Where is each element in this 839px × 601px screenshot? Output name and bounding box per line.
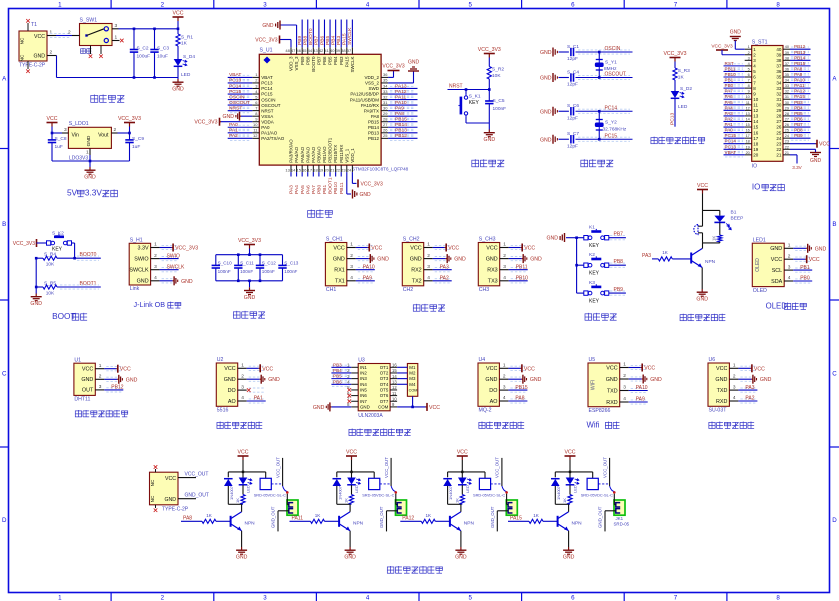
svg-text:TX1: TX1 <box>335 279 345 285</box>
svg-text:B: B <box>2 221 6 228</box>
svg-text:1: 1 <box>86 150 89 156</box>
svg-text:VCC_3V3: VCC_3V3 <box>175 246 198 252</box>
svg-text:29: 29 <box>785 106 789 110</box>
svg-text:GND: GND <box>360 192 372 198</box>
connector S_CH2 <box>402 243 423 286</box>
svg-text:3: 3 <box>115 23 118 29</box>
transistor NPN relay 4 <box>557 516 559 527</box>
svg-text:VCC: VCC <box>371 246 382 252</box>
svg-text:4: 4 <box>503 395 506 401</box>
svg-text:GND: GND <box>810 158 822 164</box>
svg-text:10uF: 10uF <box>157 54 168 60</box>
svg-text:NC: NC <box>150 479 155 486</box>
svg-text:35: 35 <box>776 75 782 80</box>
svg-text:6: 6 <box>748 73 750 77</box>
svg-text:PA1: PA1 <box>725 122 734 127</box>
power VCC_3V3 reset <box>488 54 490 58</box>
svg-text:MQ-2: MQ-2 <box>479 408 492 414</box>
relay coil SRD-05VDC-SL-C 4 <box>592 472 594 478</box>
svg-text:BEEP: BEEP <box>731 216 744 222</box>
ground GND relay 3 <box>460 547 462 550</box>
svg-text:1K: 1K <box>315 513 322 518</box>
svg-text:35: 35 <box>383 78 388 83</box>
power VCC_3V3 at U1 VDD_1 <box>351 172 353 183</box>
module U1 DHT11 <box>74 363 95 395</box>
svg-text:VCC: VCC <box>333 245 344 251</box>
svg-text:32: 32 <box>383 94 388 99</box>
svg-text:S_R4: S_R4 <box>44 252 56 258</box>
mcu U1 STM32F103C8T6 body <box>259 54 381 165</box>
svg-text:IN5: IN5 <box>360 388 367 393</box>
resistor 1K relay 1 <box>242 485 244 494</box>
svg-text:GND: GND <box>455 555 467 561</box>
svg-text:1: 1 <box>58 594 62 601</box>
svg-text:45: 45 <box>302 48 307 53</box>
svg-text:TYPE-C-2P: TYPE-C-2P <box>19 63 46 69</box>
svg-text:GND: GND <box>540 137 552 143</box>
svg-text:GND: GND <box>30 301 42 307</box>
svg-text:VDD_2: VDD_2 <box>364 75 379 80</box>
svg-text:20: 20 <box>324 167 329 172</box>
svg-text:PB3: PB3 <box>336 35 342 45</box>
svg-text:12: 12 <box>253 133 258 138</box>
svg-text:PB15: PB15 <box>368 119 380 124</box>
svg-text:PA8: PA8 <box>794 66 803 71</box>
svg-text:25: 25 <box>785 129 789 133</box>
svg-text:5516: 5516 <box>217 408 229 414</box>
svg-text:24: 24 <box>776 136 782 141</box>
relay coil SRD-05VDC-SL-C 3 <box>484 472 486 478</box>
svg-text:PA12: PA12 <box>395 89 407 95</box>
title 主芯片 <box>308 209 315 217</box>
svg-text:PA4: PA4 <box>294 185 300 194</box>
svg-text:VCC: VCC <box>165 476 176 482</box>
svg-text:IO: IO <box>752 183 760 192</box>
capacitor S_C2 100uF <box>133 29 135 49</box>
net 3.3V at header pin21 <box>790 154 797 156</box>
svg-text:1N4007: 1N4007 <box>556 485 561 500</box>
svg-text:PB7: PB7 <box>314 35 320 45</box>
svg-text:DO: DO <box>228 388 236 394</box>
svg-text:OSCOUT: OSCOUT <box>605 72 626 78</box>
svg-text:37: 37 <box>347 48 352 53</box>
svg-text:CH2: CH2 <box>403 287 413 293</box>
svg-text:32: 32 <box>776 91 782 96</box>
svg-text:PA2: PA2 <box>725 116 734 121</box>
svg-text:GND: GND <box>485 377 497 383</box>
svg-text:DHT11: DHT11 <box>74 397 90 403</box>
svg-text:10: 10 <box>746 95 750 99</box>
title 声光报警电路 <box>680 314 686 321</box>
svg-text:3.3V: 3.3V <box>792 165 802 170</box>
svg-text:PB15: PB15 <box>395 117 407 123</box>
LED relay 2 <box>351 472 353 478</box>
title 串口电路 <box>413 304 420 311</box>
terminal block 4 <box>614 500 625 515</box>
svg-text:40: 40 <box>330 48 335 53</box>
svg-text:4: 4 <box>366 2 370 9</box>
power VCC_3V3 at U1 VDD_2 <box>388 76 393 78</box>
connector M1 stepper motor <box>407 364 417 397</box>
svg-text:2: 2 <box>733 373 736 379</box>
svg-text:VCC_3V3: VCC_3V3 <box>361 181 383 187</box>
svg-text:PB0: PB0 <box>725 83 734 88</box>
svg-text:BOOT0: BOOT0 <box>80 252 97 258</box>
svg-text:10K: 10K <box>492 73 501 79</box>
svg-text:NPN: NPN <box>353 521 364 527</box>
svg-text:1N4007: 1N4007 <box>337 485 342 500</box>
svg-text:1: 1 <box>350 242 353 248</box>
wires U3 inputs PB3-PB6 <box>331 366 351 368</box>
svg-text:U3: U3 <box>358 357 365 363</box>
svg-text:VCC: VCC <box>410 245 421 251</box>
display LED1 OLED <box>752 243 784 286</box>
svg-text:39: 39 <box>336 48 341 53</box>
title 程序运行指示灯 <box>651 137 657 144</box>
svg-text:PA2/TX/AO: PA2/TX/AO <box>261 136 284 141</box>
wire boot left rail <box>35 258 37 287</box>
svg-text:PB12: PB12 <box>111 385 123 391</box>
svg-text:PB15: PB15 <box>794 61 806 66</box>
svg-text:39: 39 <box>785 51 789 55</box>
svg-text:34: 34 <box>383 83 388 88</box>
relay contact VCC_OUT 3 <box>501 458 503 486</box>
svg-text:COM: COM <box>378 405 389 410</box>
svg-text:36: 36 <box>776 69 782 74</box>
svg-text:18: 18 <box>313 167 318 172</box>
ground GND buzzer <box>701 289 703 292</box>
svg-text:Vout: Vout <box>98 133 109 139</box>
svg-text:CH1: CH1 <box>326 287 336 293</box>
svg-text:PB12: PB12 <box>368 136 380 141</box>
svg-text:1K: 1K <box>562 498 567 503</box>
filter cap rails <box>216 254 283 256</box>
svg-text:PA9: PA9 <box>794 72 803 77</box>
svg-text:SWIO: SWIO <box>167 253 180 259</box>
transistor NPN relay 3 <box>449 516 451 527</box>
svg-text:COM: COM <box>409 389 418 393</box>
svg-text:3: 3 <box>748 56 750 60</box>
svg-text:1K: 1K <box>455 498 460 503</box>
svg-text:VCC: VCC <box>262 366 273 372</box>
svg-text:PC15: PC15 <box>261 92 273 97</box>
svg-text:PC14: PC14 <box>605 105 618 111</box>
svg-text:AO: AO <box>490 399 498 405</box>
svg-text:OSCOUT: OSCOUT <box>261 103 281 108</box>
svg-text:PA3: PA3 <box>745 385 754 391</box>
svg-text:K3: K3 <box>589 280 595 286</box>
svg-text:SWCLK: SWCLK <box>167 264 185 270</box>
svg-text:GND: GND <box>86 135 92 146</box>
svg-text:VCC_OUT: VCC_OUT <box>602 457 607 478</box>
svg-text:PA12: PA12 <box>794 89 805 94</box>
svg-text:OSCIN: OSCIN <box>261 97 275 102</box>
svg-text:S_SW1: S_SW1 <box>80 17 98 23</box>
svg-text:PA2: PA2 <box>440 276 449 282</box>
svg-text:32.768KHz: 32.768KHz <box>603 127 627 133</box>
svg-text:21: 21 <box>776 153 782 158</box>
svg-text:PB6: PB6 <box>794 116 803 121</box>
svg-text:PA2: PA2 <box>745 396 754 402</box>
svg-text:J-Link OB: J-Link OB <box>133 300 165 309</box>
module U6 SU-03T voice <box>708 363 729 406</box>
svg-text:VCC: VCC <box>716 366 727 372</box>
svg-text:11: 11 <box>753 103 758 108</box>
svg-text:1N4007: 1N4007 <box>448 485 453 500</box>
svg-text:M3: M3 <box>409 376 416 381</box>
svg-text:PB13: PB13 <box>794 50 806 55</box>
svg-text:24: 24 <box>785 134 789 138</box>
svg-text:PA2: PA2 <box>229 133 238 139</box>
svg-text:26: 26 <box>383 128 388 133</box>
svg-text:22: 22 <box>776 147 782 152</box>
svg-text:30: 30 <box>776 103 782 108</box>
svg-text:PB4: PB4 <box>794 105 803 110</box>
svg-text:2: 2 <box>427 253 430 259</box>
power VCC relay 1 <box>242 456 244 460</box>
svg-text:VCC: VCC <box>486 245 497 251</box>
svg-text:TYPE-C-2P: TYPE-C-2P <box>162 507 189 513</box>
svg-text:6: 6 <box>571 594 575 601</box>
svg-text:S_Y1: S_Y1 <box>605 60 617 66</box>
svg-text:11: 11 <box>746 101 750 105</box>
svg-text:21: 21 <box>330 167 335 172</box>
svg-text:22: 22 <box>785 145 789 149</box>
svg-text:21: 21 <box>785 151 789 155</box>
wire buzzer emitter <box>701 268 703 290</box>
svg-text:VBAT: VBAT <box>725 150 737 155</box>
svg-text:PB5: PB5 <box>333 374 342 379</box>
net PC13 vertical wire <box>674 110 676 127</box>
svg-text:LED: LED <box>465 485 470 493</box>
svg-text:S_CH2: S_CH2 <box>403 237 420 243</box>
svg-text:20: 20 <box>746 151 750 155</box>
svg-text:B1: B1 <box>731 210 737 216</box>
svg-text:S_U1: S_U1 <box>260 47 273 53</box>
svg-text:VCC_OUT: VCC_OUT <box>384 457 389 478</box>
svg-text:GND: GND <box>530 257 542 263</box>
svg-text:4: 4 <box>154 275 157 281</box>
module U4 MQ-2 smoke sensor <box>478 363 499 406</box>
ground GND LDO <box>89 161 91 167</box>
svg-text:VCC_OUT: VCC_OUT <box>495 457 500 478</box>
key S_K1 reset <box>465 90 467 95</box>
svg-text:PA3: PA3 <box>289 185 295 194</box>
svg-text:13: 13 <box>285 167 290 172</box>
LED relay 4 <box>569 472 571 478</box>
capacitor S_C5 100nF <box>488 90 490 101</box>
svg-text:7: 7 <box>674 2 678 9</box>
svg-text:GND: GND <box>84 175 96 181</box>
svg-text:PA7: PA7 <box>311 185 317 194</box>
svg-text:SRD-05: SRD-05 <box>614 522 630 527</box>
svg-text:40: 40 <box>785 45 789 49</box>
wire SW1 pin3 rail <box>112 28 119 30</box>
svg-text:PB6: PB6 <box>333 379 342 384</box>
svg-text:1uF: 1uF <box>132 144 140 150</box>
svg-text:TXD: TXD <box>607 388 618 394</box>
svg-text:8: 8 <box>748 84 750 88</box>
svg-text:M1: M1 <box>409 365 416 370</box>
resistor S_R5 10K BOOT1 <box>43 285 57 289</box>
svg-text:5: 5 <box>748 67 750 71</box>
svg-text:VCC: VCC <box>429 405 440 411</box>
svg-text:KEY: KEY <box>589 299 600 305</box>
ground GND at U1 VSSA <box>241 115 252 117</box>
capacitor S_C9 1uF <box>129 133 131 139</box>
transistor NPN relay 2 <box>338 516 340 527</box>
crystal S_Y1 8MHz <box>598 52 600 60</box>
svg-text:PB5: PB5 <box>794 111 803 116</box>
svg-text:2: 2 <box>503 253 506 259</box>
svg-text:PB3: PB3 <box>333 362 342 367</box>
svg-text:PA3: PA3 <box>440 264 449 270</box>
title 光照检测模块 <box>217 422 223 429</box>
svg-text:OT2: OT2 <box>380 371 389 376</box>
svg-text:PB7: PB7 <box>794 122 803 127</box>
svg-text:23: 23 <box>785 140 789 144</box>
svg-text:NPN: NPN <box>572 521 583 527</box>
svg-text:VCC: VCC <box>697 183 708 189</box>
svg-text:1: 1 <box>154 242 157 248</box>
svg-text:GND: GND <box>770 246 782 252</box>
svg-text:VSS_3: VSS_3 <box>294 56 299 71</box>
svg-text:IN7: IN7 <box>360 399 367 404</box>
svg-text:16: 16 <box>302 167 307 172</box>
svg-text:VCC_3V3: VCC_3V3 <box>478 47 501 53</box>
svg-text:GND: GND <box>244 295 256 301</box>
svg-text:BOOT0: BOOT0 <box>311 56 316 72</box>
svg-text:K1: K1 <box>589 225 595 231</box>
svg-text:4: 4 <box>241 395 244 401</box>
svg-text:1: 1 <box>115 35 118 41</box>
svg-text:14: 14 <box>746 117 750 121</box>
svg-text:VCC_3V3: VCC_3V3 <box>382 64 404 70</box>
svg-text:KEY: KEY <box>589 271 600 277</box>
svg-text:S_H1: S_H1 <box>130 238 143 244</box>
svg-text:GND_OUT: GND_OUT <box>490 506 495 528</box>
svg-text:VCC: VCC <box>486 366 497 372</box>
svg-text:PB9: PB9 <box>297 35 303 45</box>
svg-text:4: 4 <box>366 594 370 601</box>
svg-text:PB6: PB6 <box>319 35 325 45</box>
svg-text:GND: GND <box>454 257 466 263</box>
svg-text:VBAT: VBAT <box>261 75 273 80</box>
svg-text:12pF: 12pF <box>567 115 578 121</box>
regulator S_LDO1 <box>68 127 111 148</box>
svg-text:3: 3 <box>427 264 430 270</box>
svg-text:15: 15 <box>746 123 750 127</box>
power VCC_3V3 LDO output <box>129 123 131 127</box>
power VCC relay 3 <box>461 456 463 460</box>
svg-text:1K: 1K <box>181 41 188 47</box>
svg-text:GND: GND <box>360 405 370 410</box>
svg-text:1: 1 <box>623 362 626 368</box>
svg-text:25: 25 <box>776 130 782 135</box>
ground GND boot <box>35 287 37 294</box>
connector T2 TYPE-C-2P relay power <box>150 472 179 505</box>
svg-text:S_C5: S_C5 <box>493 98 505 104</box>
svg-text:1: 1 <box>427 242 430 248</box>
svg-text:BOOT0: BOOT0 <box>308 28 314 45</box>
LED S_D2 <box>671 91 680 98</box>
svg-text:S_LDO1: S_LDO1 <box>69 121 89 127</box>
svg-text:GND: GND <box>484 137 496 143</box>
svg-text:M4: M4 <box>409 382 416 387</box>
svg-text:VCC_3V3: VCC_3V3 <box>238 238 261 244</box>
svg-text:7: 7 <box>748 79 750 83</box>
svg-text:PB10: PB10 <box>516 276 528 282</box>
svg-text:OSCIN: OSCIN <box>229 94 245 100</box>
svg-text:C: C <box>832 371 837 378</box>
svg-text:VCC: VCC <box>224 366 235 372</box>
wire T1 pin2 GND to bottom rail <box>47 55 57 57</box>
svg-text:12pF: 12pF <box>567 56 578 62</box>
svg-text:PA10: PA10 <box>395 100 407 106</box>
svg-text:GND_OUT: GND_OUT <box>379 506 384 528</box>
svg-text:GND: GND <box>540 50 552 56</box>
buzzer speaker B? <box>702 210 704 226</box>
LED S_D4 <box>174 59 183 66</box>
svg-text:PA5: PA5 <box>300 185 306 194</box>
svg-text:PA10: PA10 <box>794 78 805 83</box>
svg-text:D: D <box>2 517 7 524</box>
svg-text:3: 3 <box>503 384 506 390</box>
svg-text:VCC: VCC <box>565 450 576 456</box>
svg-text:IO: IO <box>752 164 757 170</box>
svg-text:33: 33 <box>383 89 388 94</box>
svg-text:WIFI: WIFI <box>591 380 597 391</box>
svg-text:28: 28 <box>785 112 789 116</box>
svg-text:OUT: OUT <box>82 388 94 394</box>
svg-text:GND: GND <box>730 30 742 36</box>
title 烟雾检测模块 <box>479 422 485 429</box>
svg-text:OT3: OT3 <box>380 376 389 381</box>
svg-text:100uF: 100uF <box>137 54 151 60</box>
svg-text:23: 23 <box>341 167 346 172</box>
svg-text:3: 3 <box>263 594 267 601</box>
svg-text:LED: LED <box>678 104 688 110</box>
svg-text:U1: U1 <box>74 357 81 363</box>
svg-text:S_C2: S_C2 <box>137 45 149 51</box>
svg-text:5V: 5V <box>67 188 78 198</box>
svg-text:JK1: JK1 <box>616 516 624 521</box>
svg-text:GND: GND <box>222 114 234 120</box>
ground GND U3 pin8 <box>331 406 351 408</box>
svg-text:PA10: PA10 <box>363 264 375 270</box>
svg-text:28: 28 <box>383 117 388 122</box>
svg-text:PB4: PB4 <box>330 35 336 45</box>
wire T1 pin1 to SW1 <box>47 35 56 37</box>
svg-text:GND: GND <box>81 377 93 383</box>
svg-text:PB11/RX: PB11/RX <box>339 145 344 163</box>
resistor S_R3 1K <box>673 68 677 80</box>
svg-text:34: 34 <box>776 80 782 85</box>
svg-text:2: 2 <box>788 253 791 259</box>
svg-text:BOOT1: BOOT1 <box>328 177 334 194</box>
svg-text:12: 12 <box>392 385 397 390</box>
svg-text:K2: K2 <box>589 252 595 258</box>
svg-text:S_CH1: S_CH1 <box>326 237 343 243</box>
svg-text:VSSA: VSSA <box>261 114 273 119</box>
wire relay common to terminal 1 <box>286 494 288 505</box>
svg-text:3: 3 <box>154 264 157 270</box>
capacitor S_C8 1uF <box>51 133 53 139</box>
svg-text:31: 31 <box>776 97 782 102</box>
svg-text:VCC_3V3: VCC_3V3 <box>255 38 277 44</box>
connector S_CH3 <box>478 243 499 286</box>
svg-text:VSS_1: VSS_1 <box>344 148 349 163</box>
